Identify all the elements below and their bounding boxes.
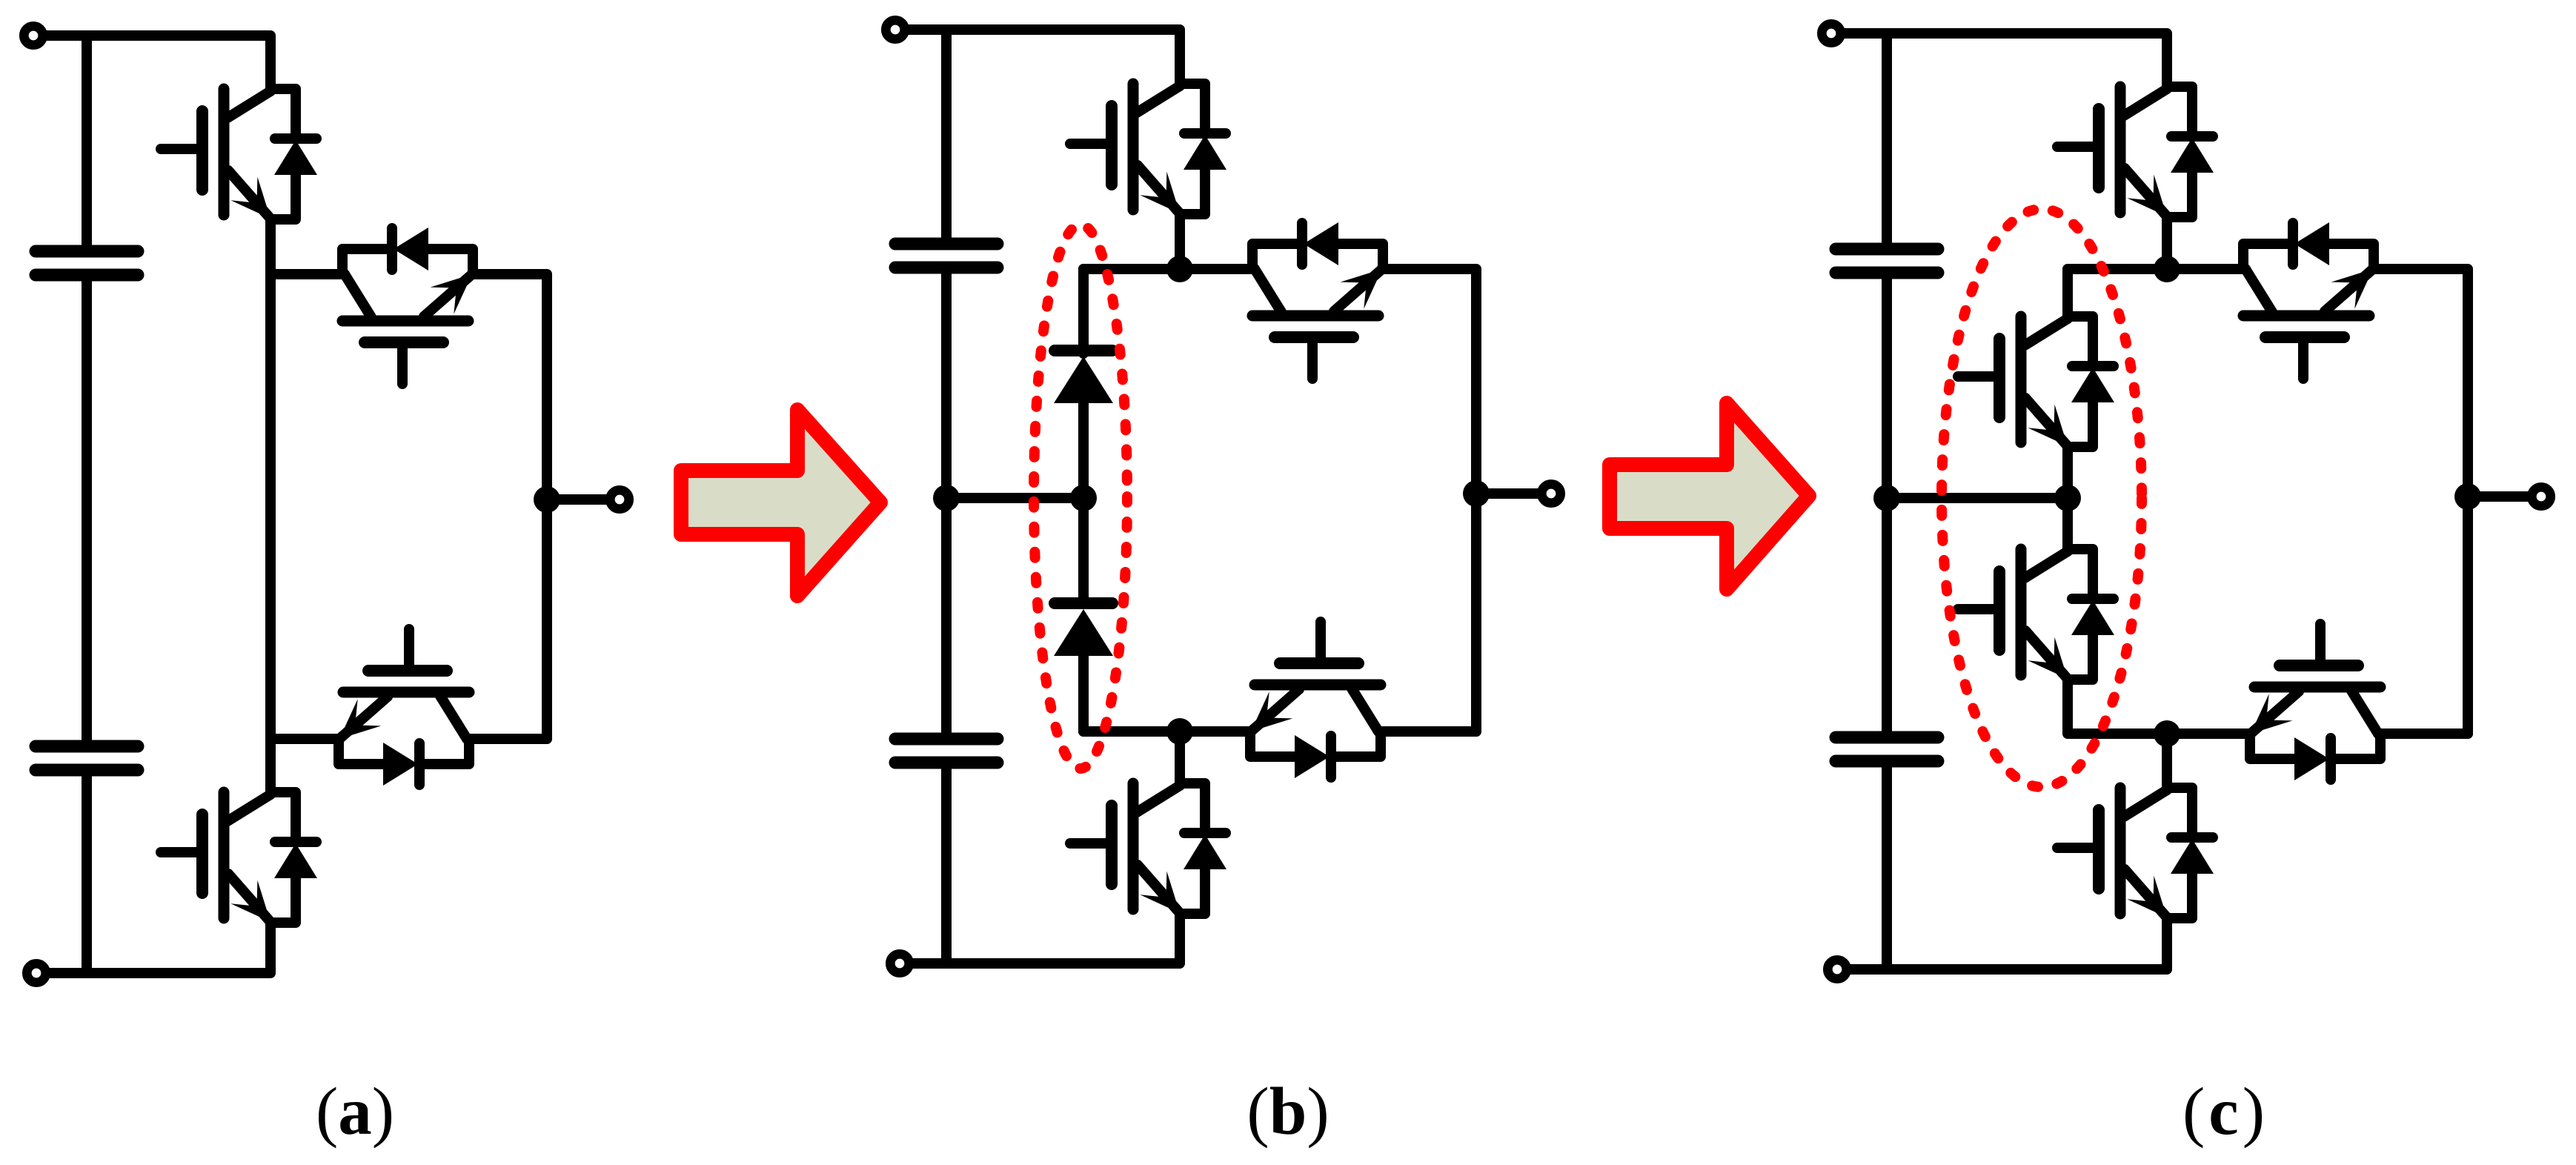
svg-text:(a): (a) <box>316 1074 394 1149</box>
svg-text:(c): (c) <box>2182 1074 2268 1149</box>
svg-text:(b): (b) <box>1246 1074 1329 1149</box>
